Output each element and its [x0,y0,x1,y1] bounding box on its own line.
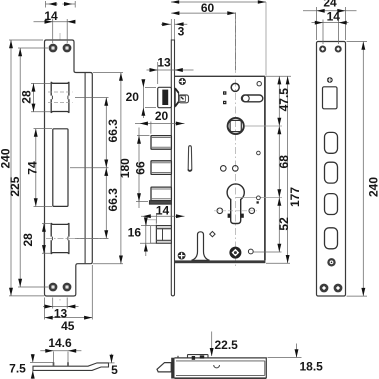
svg-text:14: 14 [327,10,341,24]
svg-text:22.5: 22.5 [215,338,239,352]
svg-text:7.5: 7.5 [9,362,26,376]
svg-text:66.3: 66.3 [106,119,120,143]
svg-text:3: 3 [178,25,185,39]
svg-text:45: 45 [61,319,75,333]
svg-text:14: 14 [44,9,58,23]
svg-text:24: 24 [323,0,337,10]
svg-text:240: 240 [366,177,379,197]
svg-text:68: 68 [277,155,291,169]
svg-text:180: 180 [118,158,132,178]
svg-text:47.5: 47.5 [277,88,291,112]
svg-text:74: 74 [25,161,39,175]
svg-text:14.6: 14.6 [48,336,72,350]
svg-text:18.5: 18.5 [300,360,324,374]
svg-text:28: 28 [21,233,35,247]
svg-text:60: 60 [201,1,215,15]
svg-text:225: 225 [8,176,22,196]
svg-text:5: 5 [111,363,118,377]
svg-text:13: 13 [157,56,171,70]
svg-text:66: 66 [133,161,147,175]
svg-text:16: 16 [128,226,142,240]
svg-text:240: 240 [0,148,13,168]
svg-text:177: 177 [288,187,302,207]
svg-text:52: 52 [277,217,291,231]
svg-text:66.3: 66.3 [106,188,120,212]
svg-text:20: 20 [126,90,140,104]
svg-text:20: 20 [155,109,169,123]
svg-text:14: 14 [156,203,170,217]
svg-text:28: 28 [19,90,33,104]
